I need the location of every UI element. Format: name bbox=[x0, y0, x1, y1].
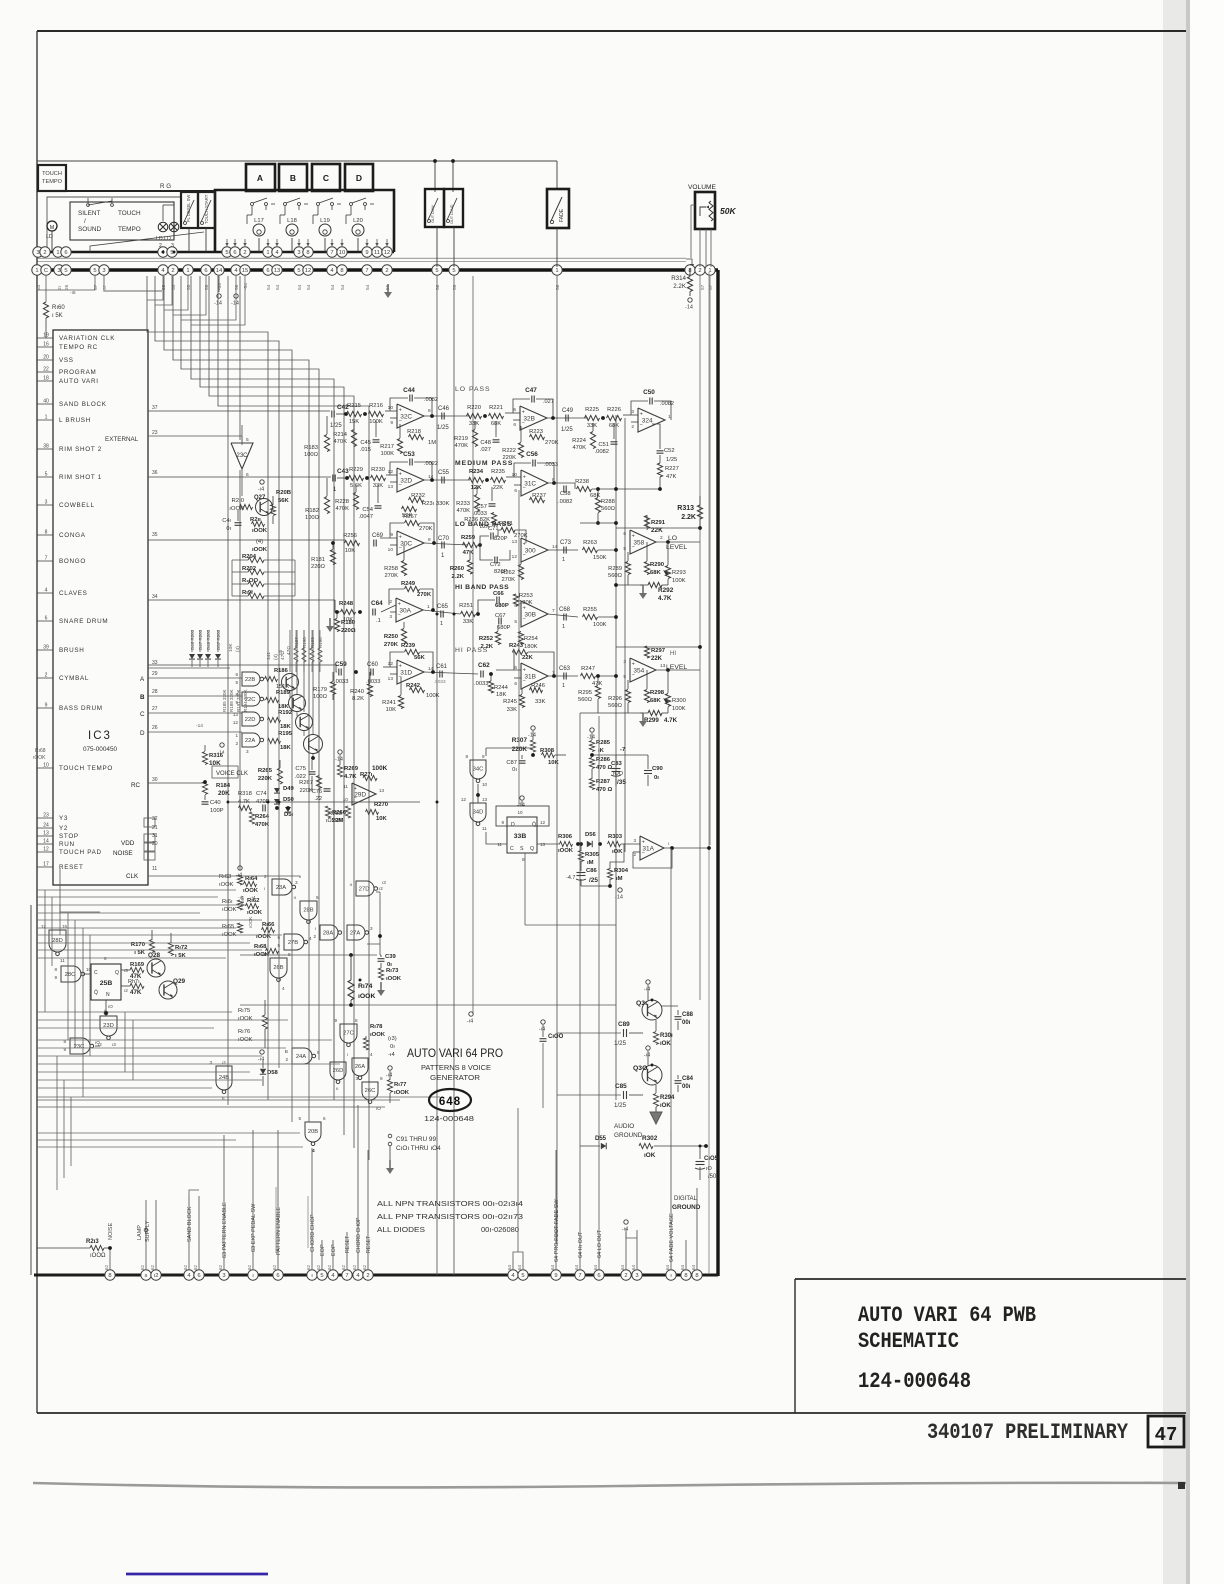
svg-text:ıOOK: ıOOK bbox=[219, 882, 234, 888]
wire cascade bbox=[173, 276, 309, 738]
nand 24A bbox=[292, 1048, 312, 1064]
TOUCH TEMPO box bbox=[38, 165, 66, 191]
wire vertical run bbox=[70, 1097, 72, 1166]
svg-text:R239: R239 bbox=[401, 643, 416, 649]
svg-text:28C: 28C bbox=[65, 972, 76, 978]
svg-text:3: 3 bbox=[45, 500, 48, 506]
svg-text:R189: R189 bbox=[276, 690, 291, 696]
wire cascade bbox=[200, 276, 344, 1135]
-14 above R163 bbox=[238, 866, 242, 870]
op-amp 30C bbox=[397, 531, 424, 555]
svg-text:33K: 33K bbox=[463, 619, 473, 625]
flip-flop 25B bbox=[91, 964, 121, 1000]
svg-text:1: 1 bbox=[562, 683, 565, 689]
svg-text:6: 6 bbox=[64, 250, 67, 256]
svg-text:−: − bbox=[354, 796, 357, 802]
wire 33B Q to R306 bbox=[537, 843, 560, 845]
svg-text:SOUND: SOUND bbox=[78, 226, 101, 233]
svg-text:5: 5 bbox=[297, 268, 300, 274]
bottom terminal 4 bbox=[184, 1270, 194, 1280]
svg-text:54: 54 bbox=[36, 284, 42, 290]
svg-text:BONGO: BONGO bbox=[59, 558, 86, 565]
nand 28A bbox=[320, 925, 338, 940]
svg-text:C61: C61 bbox=[436, 664, 448, 670]
svg-text:DIGITAL: DIGITAL bbox=[674, 1196, 698, 1202]
svg-text:354: 354 bbox=[633, 667, 644, 674]
svg-text:1: 1 bbox=[427, 604, 430, 610]
svg-text:.027: .027 bbox=[480, 447, 491, 453]
svg-text:−: − bbox=[640, 422, 643, 428]
svg-text:8: 8 bbox=[306, 250, 309, 256]
svg-text:GROUND: GROUND bbox=[614, 1132, 643, 1139]
wire row1 stage2 out bbox=[547, 417, 588, 419]
svg-text:1/25: 1/25 bbox=[330, 423, 342, 429]
svg-text:R181: R181 bbox=[311, 557, 325, 563]
svg-text:C68: C68 bbox=[559, 607, 571, 613]
svg-text:100Ω: 100Ω bbox=[304, 452, 319, 458]
nand 27A bbox=[347, 925, 365, 940]
svg-text:1: 1 bbox=[45, 415, 48, 421]
capacitor C53 .0022 feedback bbox=[409, 459, 411, 466]
svg-text:FL DESEL SW: FL DESEL SW bbox=[186, 195, 191, 222]
svg-text:1: 1 bbox=[186, 268, 189, 274]
bottom terminal 5 bbox=[518, 1270, 528, 1280]
svg-text:9: 9 bbox=[317, 1050, 320, 1055]
svg-text:100K: 100K bbox=[672, 706, 686, 712]
svg-text:2: 2 bbox=[389, 599, 392, 605]
svg-text:R304: R304 bbox=[614, 868, 629, 874]
svg-text:R234: R234 bbox=[469, 469, 484, 475]
wire long vertical fade x557 bbox=[556, 276, 558, 1244]
transistor Q mid2 bbox=[296, 714, 313, 731]
row1 thick pin rail bbox=[37, 251, 394, 253]
svg-text:220Ω: 220Ω bbox=[311, 564, 326, 570]
svg-text:ı4ı: ı4ı bbox=[278, 650, 284, 655]
resistor R291 22K bbox=[644, 516, 649, 529]
svg-text:12: 12 bbox=[233, 720, 239, 725]
svg-text:R306: R306 bbox=[558, 834, 573, 840]
svg-text:GENERATOR: GENERATOR bbox=[430, 1075, 480, 1082]
switch box pair upper bbox=[425, 189, 444, 227]
svg-text:C89: C89 bbox=[618, 1021, 630, 1028]
svg-text:R290: R290 bbox=[650, 562, 665, 568]
svg-text:64 FADE VOLTAGE: 64 FADE VOLTAGE bbox=[669, 1213, 675, 1262]
IC3 pin 13 STOP bbox=[37, 835, 53, 837]
svg-text:+: + bbox=[632, 662, 635, 668]
svg-text:12: 12 bbox=[388, 661, 394, 667]
op-amp 30B bbox=[521, 601, 548, 627]
svg-text:R296: R296 bbox=[608, 696, 622, 702]
svg-text:32C: 32C bbox=[400, 413, 412, 420]
row1 pin arrows bbox=[226, 239, 228, 243]
resistor R264 470K bbox=[249, 812, 254, 824]
svg-text:ı5: ı5 bbox=[262, 952, 266, 957]
svg-text:ıı: ıı bbox=[293, 895, 296, 900]
op-amp 35A bbox=[630, 658, 656, 682]
wire vertical run bbox=[132, 1020, 134, 1080]
-14 R285 group bbox=[590, 728, 594, 732]
switch box FL DESEL SW bbox=[181, 192, 198, 228]
svg-text:Rı77: Rı77 bbox=[394, 1082, 407, 1088]
svg-text:47K: 47K bbox=[130, 989, 142, 996]
svg-text:R289: R289 bbox=[608, 566, 622, 572]
resistor R259 47K bbox=[463, 542, 478, 547]
svg-text:1: 1 bbox=[56, 250, 59, 256]
resistor R288 560ohm bbox=[595, 498, 600, 513]
right border thick rail bbox=[716, 270, 719, 1276]
svg-text:10: 10 bbox=[517, 810, 523, 815]
transistor Q30 bbox=[642, 1065, 662, 1085]
svg-text:2.2K: 2.2K bbox=[681, 514, 696, 521]
IC3 pin 14 RUN bbox=[37, 843, 53, 845]
flip-flop 33B outer bbox=[496, 806, 549, 826]
wire horizontal run bbox=[37, 1139, 236, 1141]
svg-text:C59: C59 bbox=[335, 661, 347, 668]
resistor R306 100K bbox=[560, 841, 573, 846]
svg-text:VARIATION CLK: VARIATION CLK bbox=[59, 335, 115, 342]
wire long rail y1005 bbox=[240, 1004, 616, 1006]
svg-text:64: 64 bbox=[507, 1264, 512, 1270]
svg-text:ıOOK: ıOOK bbox=[252, 528, 268, 534]
svg-text:C87: C87 bbox=[506, 760, 517, 766]
bottom terminal 4 bbox=[353, 1270, 363, 1280]
svg-text:33K: 33K bbox=[507, 707, 517, 713]
LED LD left bbox=[158, 222, 168, 232]
svg-text:5: 5 bbox=[513, 407, 516, 413]
svg-text:ıO: ıO bbox=[108, 1004, 113, 1009]
svg-text:10: 10 bbox=[43, 763, 49, 769]
svg-text:C: C bbox=[94, 970, 98, 976]
wire 34C to 34D bbox=[477, 784, 479, 803]
svg-text:TOUCH PAD: TOUCH PAD bbox=[59, 849, 102, 856]
resistor R313 2.2K bbox=[697, 505, 702, 519]
ground digital bbox=[689, 1186, 691, 1189]
svg-text:C51: C51 bbox=[598, 442, 609, 448]
svg-text:3: 3 bbox=[297, 250, 300, 256]
wire bus drop jog bbox=[181, 276, 236, 320]
top rail wire bbox=[37, 160, 557, 162]
svg-text:C52: C52 bbox=[664, 448, 675, 454]
op-amp 31C bbox=[521, 470, 548, 496]
svg-text:3: 3 bbox=[355, 1076, 358, 1081]
svg-text:R182: R182 bbox=[305, 508, 319, 514]
nor 26D bbox=[330, 1062, 346, 1080]
svg-text:27: 27 bbox=[152, 706, 158, 712]
grounds Q28 Q29 bbox=[155, 978, 157, 981]
svg-text:Rı66: Rı66 bbox=[262, 922, 275, 928]
resistor R222 220K bbox=[518, 443, 523, 458]
resistor R217 100K bbox=[397, 439, 402, 454]
wire row3 stage1 out bbox=[424, 543, 468, 545]
bottom terminal 5 bbox=[317, 1270, 327, 1280]
switch above lamp L20 bbox=[350, 203, 353, 206]
svg-text:100Ω: 100Ω bbox=[313, 694, 328, 700]
svg-text:20B: 20B bbox=[308, 1129, 318, 1135]
svg-text:D: D bbox=[140, 730, 145, 737]
resistor R239 56K feedback bbox=[405, 649, 420, 654]
R314 resistor bbox=[687, 277, 692, 292]
-14 above Q31 bbox=[646, 980, 650, 984]
IC3 pin 17 RESET bbox=[37, 866, 53, 868]
svg-text:Q: Q bbox=[115, 970, 119, 976]
svg-text:+: + bbox=[523, 542, 526, 548]
svg-text:+: + bbox=[522, 410, 525, 416]
svg-text:CıOı THRU ıO4: CıOı THRU ıO4 bbox=[396, 1145, 441, 1152]
svg-text:R185 330K: R185 330K bbox=[222, 689, 227, 712]
svg-text:34C: 34C bbox=[473, 767, 484, 773]
transistor Q29 bbox=[159, 981, 177, 999]
svg-text:18K: 18K bbox=[496, 692, 506, 698]
svg-text:CıOO: CıOO bbox=[548, 1034, 564, 1040]
svg-text:C91 THRU 99: C91 THRU 99 bbox=[396, 1136, 436, 1143]
resistor R241 10K bbox=[398, 696, 403, 709]
wire row4 stage1 out bbox=[423, 610, 460, 614]
bottom terminal 3 bbox=[632, 1270, 642, 1280]
IC3 pin 40 SAND BLOCK bbox=[37, 403, 53, 405]
SILENT SOUND TOUCH TEMPO box bbox=[70, 202, 174, 240]
svg-text:R262: R262 bbox=[501, 570, 515, 576]
svg-text:ıOOΩ: ıOOΩ bbox=[90, 1253, 106, 1259]
svg-text:62: 62 bbox=[306, 1264, 311, 1270]
resistor R289b 560ohm bbox=[625, 562, 630, 575]
op-amp 29D bbox=[352, 783, 376, 805]
svg-text:ıOK: ıOK bbox=[660, 1041, 671, 1047]
svg-text:62: 62 bbox=[150, 1264, 155, 1270]
svg-text:18K: 18K bbox=[280, 724, 292, 730]
resistor R303 10K bbox=[608, 841, 621, 846]
svg-text:AUTO VARI 64 PRO: AUTO VARI 64 PRO bbox=[407, 1048, 503, 1060]
bottom terminal 6 bbox=[594, 1270, 604, 1280]
resistor R198 bbox=[248, 593, 264, 598]
svg-text:R240: R240 bbox=[350, 689, 364, 695]
svg-text:−: − bbox=[522, 420, 525, 426]
svg-text:38: 38 bbox=[43, 444, 49, 450]
svg-text:26: 26 bbox=[64, 284, 70, 290]
button box C bbox=[312, 164, 340, 191]
resistor R211 100K bbox=[252, 521, 265, 526]
wire col 319 down bbox=[318, 800, 320, 1060]
svg-text:22D: 22D bbox=[245, 717, 256, 723]
svg-text:EXTERNAL: EXTERNAL bbox=[105, 436, 139, 443]
svg-text:12: 12 bbox=[305, 268, 311, 274]
svg-text:64: 64 bbox=[517, 1264, 522, 1270]
svg-text:470K: 470K bbox=[335, 506, 349, 512]
svg-text:4: 4 bbox=[370, 1052, 373, 1057]
svg-text:9: 9 bbox=[554, 1273, 557, 1279]
svg-text:R270: R270 bbox=[374, 802, 389, 808]
svg-text:RUN: RUN bbox=[59, 841, 75, 848]
svg-text:+: + bbox=[399, 664, 402, 670]
svg-text:ıOOK: ıOOK bbox=[386, 976, 402, 982]
left border line bbox=[36, 31, 38, 1413]
svg-text:1: 1 bbox=[562, 557, 565, 563]
svg-text:62: 62 bbox=[183, 1264, 188, 1270]
svg-text:R223: R223 bbox=[529, 429, 543, 435]
wire long vertical x710 bbox=[709, 276, 711, 845]
svg-text:39: 39 bbox=[43, 645, 49, 651]
svg-text:680P: 680P bbox=[495, 603, 509, 609]
resistor R257 270K feedback bbox=[405, 520, 420, 525]
resistor R227 47K bbox=[657, 463, 662, 477]
svg-text:47K: 47K bbox=[666, 474, 676, 480]
svg-text:OUT LOW: OUT LOW bbox=[431, 205, 435, 223]
wire RC row bbox=[148, 782, 205, 784]
wire drop to switch FL DESEL bbox=[434, 161, 436, 192]
svg-text:ı3: ı3 bbox=[124, 968, 128, 973]
capacitor C76 .22 bbox=[324, 788, 331, 790]
svg-text:C55: C55 bbox=[438, 470, 450, 476]
svg-text:54: 54 bbox=[275, 284, 281, 290]
capacitor stack C91 THRU 99 bbox=[388, 1134, 392, 1138]
svg-text:Y3: Y3 bbox=[59, 815, 68, 822]
svg-text:PATTERN ENABLE: PATTERN ENABLE bbox=[276, 1207, 282, 1255]
svg-text:324: 324 bbox=[642, 417, 653, 424]
wire long vertical B bbox=[239, 276, 241, 440]
svg-text:62: 62 bbox=[193, 1264, 198, 1270]
wire horizontal run bbox=[37, 1063, 340, 1065]
svg-text:R314: R314 bbox=[671, 275, 686, 282]
resistor R260 2.2K bbox=[467, 560, 472, 574]
svg-text:ı: ı bbox=[264, 886, 265, 891]
svg-text:9: 9 bbox=[365, 250, 368, 256]
nand 23D vertical bbox=[100, 1016, 117, 1036]
svg-text:62: 62 bbox=[352, 1264, 357, 1270]
svg-text:8: 8 bbox=[340, 268, 343, 274]
svg-text:100P: 100P bbox=[210, 808, 224, 814]
svg-text:C58: C58 bbox=[560, 491, 571, 497]
resistor R305 1M bbox=[578, 851, 583, 862]
wire vertical run bbox=[67, 913, 69, 1040]
resistor R250 270K bbox=[401, 629, 406, 644]
svg-text:340107 PRELIMINARY: 340107 PRELIMINARY bbox=[927, 1420, 1129, 1445]
svg-text:C76: C76 bbox=[312, 789, 322, 795]
svg-text:2.2K: 2.2K bbox=[452, 574, 465, 580]
resistor R248 10K bbox=[341, 609, 356, 614]
svg-text:20: 20 bbox=[43, 355, 49, 361]
svg-text:100K: 100K bbox=[426, 693, 440, 699]
svg-text:R298: R298 bbox=[650, 690, 665, 696]
bottom terminal 7 bbox=[575, 1270, 585, 1280]
svg-text:3: 3 bbox=[370, 926, 373, 931]
svg-text:C88: C88 bbox=[682, 1012, 694, 1018]
svg-text:RESET: RESET bbox=[366, 1235, 372, 1253]
svg-text:-ı4: -ı4 bbox=[386, 1073, 392, 1079]
svg-text:R204: R204 bbox=[242, 554, 257, 560]
capacitor C48 .027 bbox=[493, 439, 500, 441]
resistor R316 10K bbox=[202, 752, 207, 765]
capacitor C70 bbox=[441, 542, 443, 549]
svg-text:ı2: ı2 bbox=[154, 1273, 159, 1279]
svg-text:560Ω: 560Ω bbox=[601, 506, 616, 512]
wire lo level feed bbox=[616, 527, 700, 529]
svg-text:Rı68: Rı68 bbox=[254, 944, 267, 950]
wire row2 stage2 out bbox=[548, 482, 575, 484]
VOLUME pot box bbox=[695, 192, 715, 229]
svg-text:C45: C45 bbox=[360, 440, 371, 446]
svg-text:TOUCH START: TOUCH START bbox=[204, 194, 209, 224]
svg-text:47K: 47K bbox=[463, 550, 475, 556]
svg-text:28A: 28A bbox=[323, 931, 333, 937]
svg-text:BASS DRUM: BASS DRUM bbox=[59, 705, 103, 712]
resistor R244 18K bbox=[488, 681, 493, 693]
ground hi level bbox=[642, 713, 644, 721]
svg-text:R287: R287 bbox=[596, 779, 611, 785]
nand 22C bbox=[242, 692, 260, 706]
svg-text:C74: C74 bbox=[256, 791, 267, 797]
svg-text:R195: R195 bbox=[278, 731, 293, 737]
wires lamp L20 bbox=[357, 238, 359, 252]
pro foot fade bracket bbox=[513, 1252, 523, 1258]
svg-text:26B: 26B bbox=[273, 965, 283, 971]
svg-text:R193: R193 bbox=[310, 637, 315, 648]
resistor R204 bbox=[248, 557, 264, 562]
svg-text:23: 23 bbox=[43, 813, 49, 819]
svg-text:EOP: EOP bbox=[331, 1244, 337, 1256]
svg-text:2: 2 bbox=[264, 874, 267, 879]
svg-text:RESET: RESET bbox=[59, 864, 84, 871]
svg-text:+: + bbox=[399, 535, 402, 541]
resistor R231 330K 59K bbox=[402, 506, 417, 511]
svg-text:EOP: EOP bbox=[320, 1244, 326, 1256]
diode D58 bbox=[260, 1069, 266, 1074]
svg-text:ıOOK: ıOOK bbox=[252, 547, 268, 553]
wire 31A out bbox=[664, 847, 709, 849]
wire hi out bbox=[579, 713, 581, 1235]
svg-text:R313: R313 bbox=[677, 505, 694, 512]
LED LD right bbox=[169, 222, 179, 232]
wire horizontal run bbox=[37, 934, 282, 936]
svg-text:-ı4: -ı4 bbox=[644, 1053, 650, 1059]
svg-text:R261: R261 bbox=[499, 521, 513, 527]
wires lamp L19 bbox=[324, 238, 326, 252]
svg-text:10: 10 bbox=[343, 797, 349, 802]
wire horizontal run bbox=[37, 1019, 288, 1021]
svg-text:R202: R202 bbox=[242, 566, 257, 572]
svg-text:D48 R203: D48 R203 bbox=[190, 629, 195, 650]
svg-text:64 LO OUT: 64 LO OUT bbox=[597, 1229, 603, 1258]
svg-text:/25: /25 bbox=[589, 877, 598, 884]
svg-text:R288: R288 bbox=[601, 499, 615, 505]
wire -14 to cluster bbox=[338, 750, 342, 754]
resistor R220 33K bbox=[467, 413, 482, 418]
svg-text:2: 2 bbox=[631, 424, 634, 430]
svg-text:+: + bbox=[399, 408, 402, 414]
resistor R247 47K bbox=[581, 673, 596, 678]
resistor R243 22K feedback bbox=[513, 649, 528, 654]
svg-text:28: 28 bbox=[152, 689, 158, 695]
svg-text:47Ω: 47Ω bbox=[286, 646, 292, 655]
svg-text:56: 56 bbox=[555, 284, 561, 290]
svg-text:150K: 150K bbox=[593, 555, 607, 561]
resistor R223 270K bbox=[530, 434, 545, 439]
wires lamp L18 bbox=[291, 238, 293, 252]
svg-text:2.2K: 2.2K bbox=[673, 283, 687, 290]
wire EXTERNAL pin 23 bbox=[148, 435, 242, 437]
svg-text:/35: /35 bbox=[617, 779, 626, 786]
wire horizontal run bbox=[37, 912, 200, 914]
svg-text:LAMP: LAMP bbox=[137, 1225, 143, 1240]
svg-text:VOLUME: VOLUME bbox=[688, 184, 716, 191]
capacitor C105 10/50 bbox=[696, 1161, 705, 1163]
wire long vertical x625 bbox=[624, 418, 626, 852]
svg-text:+: + bbox=[523, 474, 526, 480]
wires ABCD pins to gates bbox=[148, 677, 242, 679]
capacitor C75 .022 bbox=[309, 771, 316, 773]
svg-text:R222: R222 bbox=[502, 448, 516, 454]
svg-text:R241: R241 bbox=[382, 700, 396, 706]
svg-text:3: 3 bbox=[295, 880, 298, 885]
scan corner mark bbox=[1178, 1482, 1185, 1489]
